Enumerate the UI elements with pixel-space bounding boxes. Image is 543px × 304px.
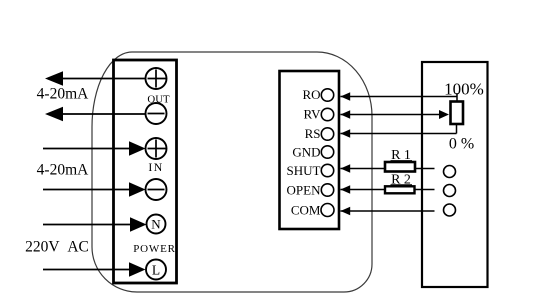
wire RO to potentiometer top — [341, 96, 458, 98]
svg-text:RO: RO — [302, 87, 320, 102]
terminal IN+ — [146, 138, 167, 159]
arrow L (right) — [129, 262, 146, 277]
actuator pin 1 — [444, 166, 456, 178]
arrow COM (left) — [341, 207, 351, 215]
wire OUT+ — [60, 78, 146, 80]
pin SHUT — [321, 164, 333, 176]
pin COM — [321, 204, 334, 217]
arrow RS (left) — [341, 129, 351, 137]
potentiometer top lead — [456, 93, 458, 102]
potentiometer body — [451, 102, 464, 125]
label R2 — [391, 172, 413, 187]
arrow RV (left) — [341, 110, 351, 118]
signal terminal strip body — [280, 71, 340, 229]
svg-text:SHUT: SHUT — [287, 163, 321, 178]
arrow RO (left) — [341, 92, 351, 100]
terminal N — [147, 215, 166, 234]
actuator pin 2 — [444, 185, 456, 197]
wire RV to potentiometer wiper — [341, 114, 441, 116]
pin RV — [321, 108, 333, 120]
svg-text:100%: 100% — [444, 80, 484, 99]
wire IN+ — [43, 148, 130, 150]
wire IN- — [43, 189, 130, 191]
wire L — [43, 269, 130, 271]
pin GND — [321, 146, 333, 158]
wire COM — [341, 210, 435, 212]
terminal L — [146, 260, 166, 280]
svg-text:4-20mA: 4-20mA — [37, 86, 89, 103]
svg-text:OPEN: OPEN — [287, 183, 322, 198]
actuator pin 3 — [444, 204, 456, 216]
arrow OUT+ (left) — [45, 71, 63, 86]
terminal OUT- — [146, 103, 167, 124]
svg-text:L: L — [152, 262, 160, 277]
arrow OPEN (left) — [341, 185, 351, 193]
svg-text:N: N — [151, 217, 161, 232]
wire OUT- — [60, 113, 146, 115]
potentiometer bottom lead — [456, 124, 458, 134]
svg-text:POWER: POWER — [133, 243, 176, 255]
arrow wiper (right, into potentiometer) — [439, 110, 449, 119]
arrow N (right) — [130, 217, 147, 232]
arrow OUT- (left) — [45, 107, 63, 122]
wire RS to potentiometer bottom — [341, 133, 457, 135]
terminal OUT+ — [146, 68, 167, 89]
resistor R1 — [385, 162, 415, 172]
terminal IN- — [146, 179, 167, 200]
svg-text:4-20mA: 4-20mA — [37, 162, 89, 179]
arrow IN+ (right) — [129, 141, 146, 156]
arrow IN- (right) — [129, 182, 146, 197]
svg-text:RS: RS — [305, 126, 321, 141]
wire N — [43, 224, 131, 226]
svg-text:RV: RV — [303, 107, 321, 122]
controller enclosure (rounded outline) — [92, 52, 372, 292]
pin OPEN — [321, 184, 333, 196]
left terminal block body — [114, 60, 177, 283]
wire OPEN (through R2) — [341, 189, 435, 191]
pin RS — [321, 128, 333, 140]
svg-text:0 %: 0 % — [449, 135, 474, 152]
wire SHUT (through R1) — [341, 168, 435, 170]
label R1 — [391, 148, 413, 163]
pin RO — [321, 89, 333, 101]
svg-text:COM: COM — [291, 203, 321, 218]
svg-text:IN: IN — [148, 160, 163, 174]
actuator unit body — [422, 62, 488, 287]
svg-text:220V AC: 220V AC — [25, 238, 89, 255]
arrow SHUT (left) — [341, 164, 351, 172]
resistor R2 — [385, 186, 415, 193]
svg-text:GND: GND — [292, 145, 320, 160]
